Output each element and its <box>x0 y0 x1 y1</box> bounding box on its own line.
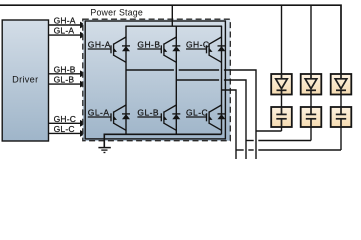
wire D2-C2 <box>310 95 312 108</box>
svg-text:GL-A: GL-A <box>88 108 110 118</box>
svg-text:GL-C: GL-C <box>54 124 75 134</box>
wire GH-B driver output <box>49 73 82 75</box>
wire leg B vertical <box>175 26 177 134</box>
diode D3 <box>331 74 352 95</box>
wire leg A vertical <box>125 26 127 134</box>
svg-text:GL-A: GL-A <box>54 26 75 36</box>
igbt GL-A <box>88 105 130 130</box>
igbt GL-B <box>137 105 180 130</box>
diode D2 <box>301 74 322 95</box>
capacitor C2 <box>301 107 322 127</box>
svg-text:GH-B: GH-B <box>137 40 160 50</box>
svg-text:GL-B: GL-B <box>137 108 159 118</box>
svg-text:GH-B: GH-B <box>54 64 76 74</box>
wire GL-A driver output <box>49 34 82 36</box>
wire phase C to C3 <box>236 149 341 151</box>
wire phase B output <box>176 80 246 159</box>
wire D3-C3 <box>340 95 342 108</box>
wire DC+ top bus <box>0 5 341 74</box>
wire phase B to C2 <box>246 140 311 142</box>
wire collector top rail <box>125 25 222 27</box>
svg-text:Driver: Driver <box>12 75 38 85</box>
wire C3 stub <box>340 127 342 150</box>
igbt GL-C <box>186 105 226 130</box>
svg-text:GH-C: GH-C <box>186 40 210 50</box>
svg-text:GL-B: GL-B <box>54 75 75 85</box>
wire column 1 drop <box>281 5 283 74</box>
driver block <box>2 20 48 141</box>
svg-text:GH-C: GH-C <box>54 114 77 124</box>
wire C2 stub <box>310 127 312 141</box>
wire GL-C driver output <box>49 132 82 134</box>
svg-text:GL-C: GL-C <box>186 108 208 118</box>
wire GH-C driver output <box>49 122 82 124</box>
wire D1-C1 <box>281 95 283 108</box>
wire C1 stub <box>281 127 283 131</box>
ground <box>98 148 110 153</box>
diode D1 <box>271 74 292 95</box>
wire phase A output <box>126 70 256 159</box>
capacitor C1 <box>271 107 292 127</box>
svg-text:GH-A: GH-A <box>88 40 111 50</box>
svg-text:Power Stage: Power Stage <box>90 7 143 17</box>
wire leg C vertical <box>221 26 223 134</box>
wire GH-A driver output <box>49 24 82 26</box>
wire emitter bottom rail <box>104 134 221 147</box>
wire GL-B driver output <box>49 83 82 85</box>
power stage module box <box>85 21 225 139</box>
power stage dashed border <box>83 19 231 141</box>
igbt GH-A <box>88 37 130 62</box>
capacitor C3 <box>331 107 352 127</box>
wire phase C output <box>222 90 237 159</box>
svg-text:GH-A: GH-A <box>54 16 76 26</box>
wire column 2 drop <box>310 5 312 74</box>
igbt GH-B <box>137 37 180 62</box>
igbt GH-C <box>186 37 226 62</box>
wire phase A to C1 <box>256 130 282 132</box>
wire DC feed into power stage <box>171 5 173 26</box>
